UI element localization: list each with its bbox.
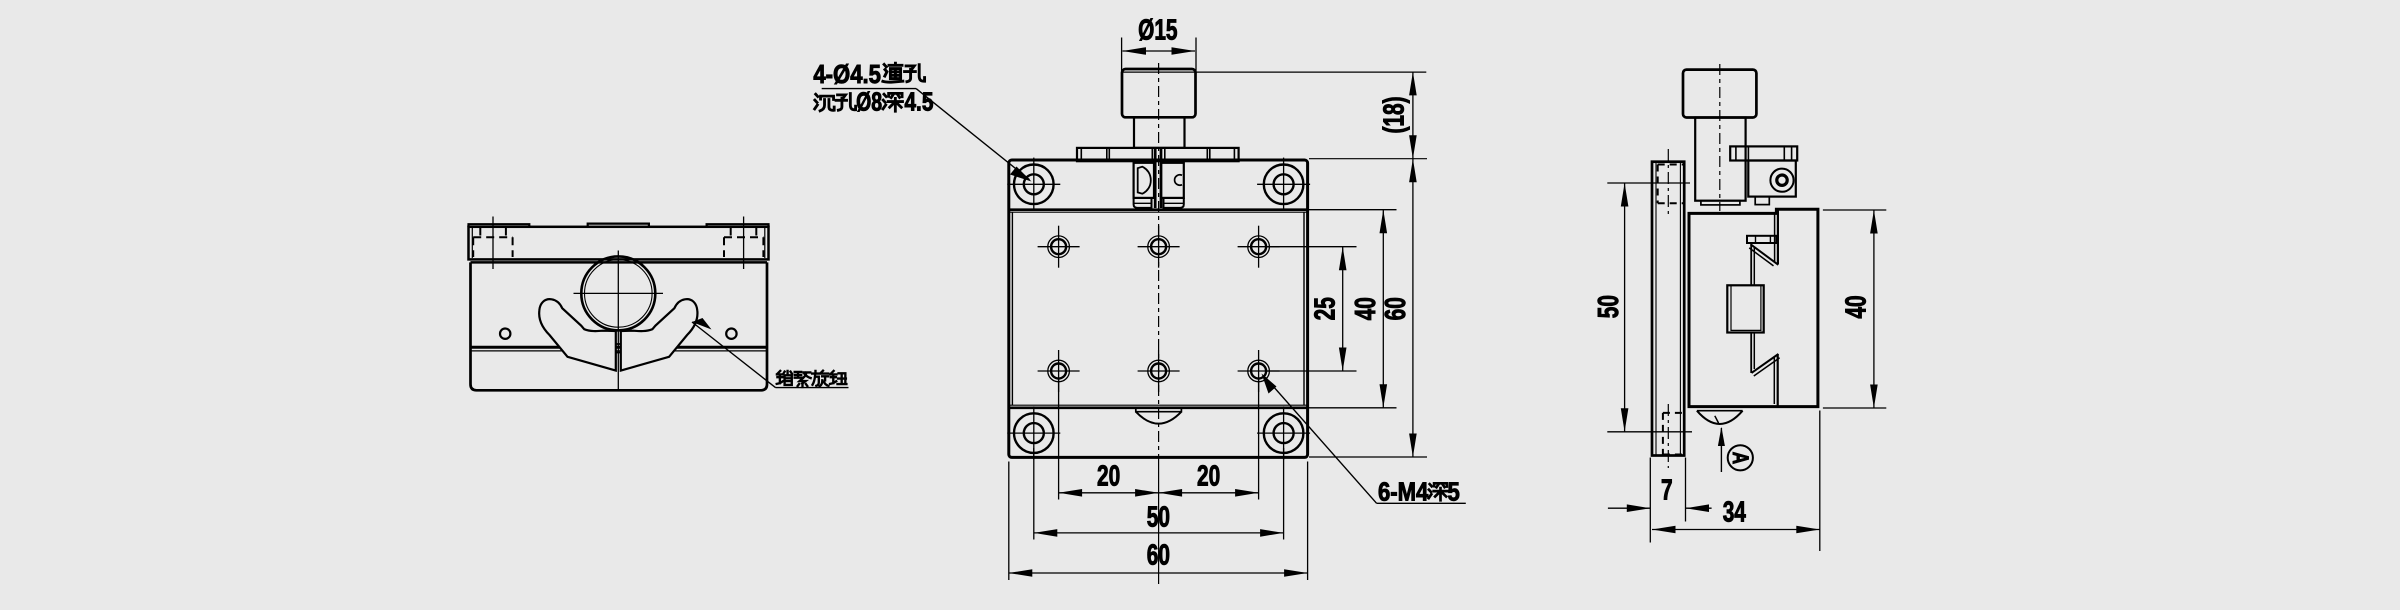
dim 60 bottom extension [1309,456,1427,458]
top plate left tab [469,224,530,227]
dovetail lower stem pair [1750,333,1752,374]
dim 50 arrows [1034,529,1284,537]
central screw slot lines [1154,148,1157,208]
leader line to lock knob label [692,322,776,388]
housing foot [1755,197,1769,205]
left plate centerline top [1667,149,1669,216]
label 6-M4 leader arrowhead [1262,374,1277,394]
dim (18) arrows [1409,72,1417,159]
dovetail tab [1747,236,1777,243]
clamp block left [1134,163,1154,198]
left plate inner lines [1655,162,1657,455]
lock lever right wing [621,299,698,370]
lever slot ticks [616,343,621,345]
body top edge [471,261,768,264]
svg-text:40: 40 [1350,297,1382,320]
flange side [1730,146,1797,160]
clamp pad [1727,285,1763,332]
dim 25 extension lines [1267,246,1357,248]
label 4-Ø4.5 leader underline [822,88,916,90]
clamp foot left [1134,198,1152,208]
clamp block right [1161,163,1184,198]
dim 50 arrows [1621,183,1629,432]
knob circle crosshair horizontal [574,292,664,294]
knob top extension line to (18) [1122,71,1426,73]
svg-text:Ø8: Ø8 [856,87,882,116]
A mark arrow [1720,428,1722,472]
dim 34 line [1652,529,1820,531]
body mid line thin [471,350,768,352]
svg-text:5: 5 [1448,478,1460,507]
top plate center tab [588,224,649,227]
svg-text:20: 20 [1197,460,1220,492]
main body outer [1009,160,1308,457]
dim Ø15 arrows [1123,47,1196,55]
dim 40 extension lines [1823,209,1886,211]
label 4-Ø4.5 leader diagonal [916,89,1029,180]
svg-text:Ø15: Ø15 [1138,14,1177,46]
dim 60 arrows [1409,159,1417,457]
bottom dims extension lines [1058,379,1060,500]
svg-text:34: 34 [1723,496,1746,528]
dim 20 20 arrows [1059,489,1259,497]
left plate centerline bottom [1667,404,1669,468]
label 6-M4 leader underline [1377,502,1466,504]
left plate hidden hole bottom (dashed) [1663,413,1684,455]
CJK 通孔 [883,63,903,82]
hidden counterbore left centerline [492,217,494,270]
M4 hole r1c3 [1238,226,1280,268]
leader arrowhead [692,318,712,330]
hidden counterbore right (dashed) [724,228,763,258]
dim (18) line [1412,72,1414,159]
knob [1122,69,1196,117]
screw head socket [1777,175,1787,185]
knob side [1683,70,1756,118]
dim 50 extension lines [1607,182,1690,184]
dim 20 20 lines [1059,492,1259,494]
flange internal ticks [1081,148,1234,161]
knob shaft [1134,117,1185,148]
bottom band tongue [1136,409,1182,412]
screw head outer [1770,169,1793,192]
label 4-Ø4.5 leader arrowhead [1010,167,1032,182]
dim (18) extension at body top [1309,158,1427,160]
CJK 沉孔 深 [815,94,835,111]
M4 hole r1c1 [1038,226,1080,268]
dim 25 arrows [1339,247,1347,371]
top plate right tab [707,224,769,227]
label text 沉孔Ø8深4.5 latin parts [856,87,933,116]
top plate [469,227,769,260]
A mark circle [1728,445,1753,470]
label underline 锁紧旋钮 [776,387,849,389]
centerline extension below [1158,456,1160,584]
dim 34 arrows [1652,526,1820,534]
left plate [1652,162,1684,456]
left plate hidden hole top (dashed) [1658,165,1684,204]
clamp block left D-cut [1138,167,1151,194]
CJK 深 in 6-M4深5 [1429,483,1448,500]
dim Ø15 extension lines [1121,38,1123,74]
top plate inner edge lines [471,227,473,258]
label 6-M4 leader diagonal [1265,378,1376,504]
main block outline [1689,209,1818,406]
svg-text:25: 25 [1309,297,1341,320]
flange bar [1077,148,1239,161]
flange side ticks [1736,146,1792,160]
counterbore hole TR [1257,158,1310,211]
dovetail upper stem pair [1750,243,1752,285]
svg-text:4-Ø4.5: 4-Ø4.5 [813,60,881,89]
body bottom edge thin [1009,404,1308,406]
knob circle crosshair vertical [617,251,619,390]
dim 7 extension lines [1649,458,1651,543]
screw housing [1748,161,1796,197]
M4 hole r2c1 [1038,350,1080,392]
shaft foot step [1701,201,1740,205]
clamp block right c-cut [1175,175,1182,185]
svg-text:(18): (18) [1378,96,1410,133]
CJK label 锁紧旋钮 [777,371,792,385]
knob circle [581,256,655,330]
dim 60 bottom arrows [1009,569,1308,577]
knob circle inner [585,260,653,328]
bottom tongue [1697,410,1743,412]
lock lever left wing [539,299,616,370]
dim 34 extension [1819,411,1821,552]
top band bottom edge thick [1009,208,1308,211]
dim 40 line [1382,210,1384,408]
dovetail upper diagonals [1751,244,1779,264]
svg-text:20: 20 [1097,460,1120,492]
hidden counterbore right centerline [743,217,745,270]
dim 40 extension lines [1309,209,1397,211]
counterbore hole TL [1007,158,1060,211]
svg-text:60: 60 [1147,539,1170,571]
svg-text:60: 60 [1380,297,1412,320]
vertical centerline dash-dot [1158,63,1160,456]
dim 40 arrows [1380,210,1388,408]
dim Ø15 line [1123,50,1196,52]
dim 50 line [1624,183,1626,432]
small hole right [726,329,736,339]
bottom band top edge thick [1009,406,1308,409]
svg-text:50: 50 [1593,295,1625,318]
dovetail lower diagonals [1752,354,1779,373]
M4 hole r2c3 [1238,350,1280,392]
dovetail lower vertical pair [1773,357,1775,404]
clamp foot right [1164,198,1184,208]
M4 hole r1c2 [1138,226,1180,268]
dim 25 line [1342,247,1344,371]
dim 50 line [1034,532,1284,534]
body inner side lines [1011,212,1013,405]
main body [471,262,768,390]
small hole left [500,329,510,339]
dovetail upper vertical pair [1774,213,1776,262]
counterbore hole BR [1257,406,1310,459]
dim 40 arrows right view [1870,210,1878,408]
shaft side [1695,118,1745,201]
body mid line thick [471,346,768,349]
dim 60 line [1412,159,1414,457]
body top edge thin [1009,211,1308,213]
counterbore hole BL [1007,406,1060,459]
svg-text:6-M4: 6-M4 [1378,478,1429,507]
svg-text:50: 50 [1147,501,1170,533]
dim 7 arrows outside [1608,507,1650,509]
svg-text:4.5: 4.5 [905,87,934,116]
svg-text:7: 7 [1661,474,1673,506]
M4 hole r2c2 [1138,350,1180,392]
hidden counterbore left (dashed) [473,228,512,258]
dim 60 bottom line [1009,572,1308,574]
shaft centerline [1719,64,1721,211]
svg-text:A: A [1727,452,1752,464]
dim 40 line right view [1873,210,1875,408]
svg-text:40: 40 [1840,295,1872,318]
